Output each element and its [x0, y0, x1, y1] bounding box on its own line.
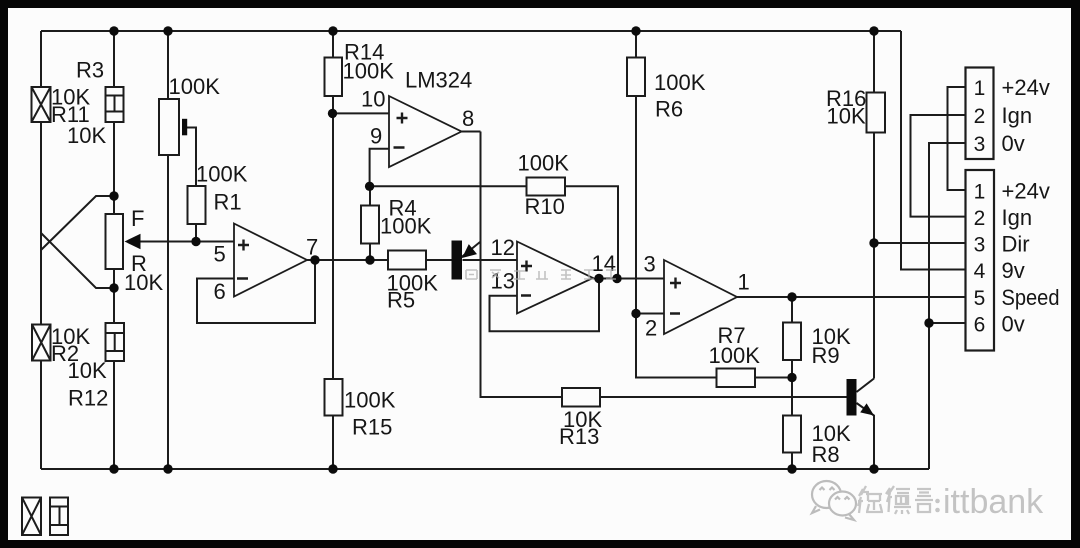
svg-text:+24v: +24v — [1002, 179, 1050, 204]
wire column R3/pot/R12 — [113, 31, 115, 469]
wire top rail — [41, 30, 901, 32]
svg-text:0v: 0v — [1002, 312, 1025, 337]
transistor Q2 — [847, 379, 875, 416]
svg-text:13: 13 — [491, 269, 515, 294]
resistor R6 — [627, 58, 645, 97]
wire pin10 — [333, 112, 390, 114]
wire column R14/R15 — [332, 31, 334, 469]
svg-text:0v: 0v — [1002, 131, 1025, 156]
wire U1 feedback — [197, 260, 315, 323]
svg-text:100K: 100K — [709, 343, 761, 368]
svg-text:10K: 10K — [124, 270, 163, 295]
transistor Q1 — [452, 241, 478, 280]
watermark wechat id text — [858, 483, 1044, 521]
watermark center press name — [466, 270, 616, 279]
svg-text:2: 2 — [645, 316, 657, 341]
svg-text:2: 2 — [974, 207, 986, 230]
wire U3 output — [593, 278, 664, 280]
resistor R16 — [867, 93, 886, 133]
svg-text:R6: R6 — [655, 97, 683, 122]
svg-text:3: 3 — [644, 252, 656, 277]
op-amp U4 — [664, 260, 737, 334]
svg-text:ittbank: ittbank — [943, 483, 1044, 521]
connector J1 — [966, 68, 994, 160]
svg-text:1: 1 — [974, 181, 986, 204]
potentiometer F/R 10K — [106, 214, 141, 269]
wire 9v line — [901, 31, 966, 270]
wire Q1 to U3 — [463, 259, 518, 261]
wire U3 feedback — [490, 279, 600, 332]
wire long drop to R13 — [481, 132, 847, 398]
svg-text:10K: 10K — [67, 123, 106, 148]
svg-text:Ign: Ign — [1002, 103, 1033, 128]
svg-text:12: 12 — [491, 235, 515, 260]
svg-text:1: 1 — [738, 270, 750, 295]
wire Dir line — [874, 242, 966, 244]
svg-text:6: 6 — [974, 314, 986, 337]
svg-text:10K: 10K — [827, 104, 866, 129]
svg-text:Speed: Speed — [1002, 285, 1060, 310]
svg-text:100K: 100K — [344, 388, 396, 413]
wire conn1 pin2 bracket — [911, 115, 966, 217]
wire Q2 emitter — [857, 403, 875, 469]
connector J1 net names — [1002, 75, 1050, 156]
potentiometer 100K — [159, 99, 187, 155]
svg-text:9: 9 — [370, 124, 382, 149]
svg-text:100K: 100K — [518, 151, 570, 176]
resistor R15 — [325, 379, 343, 416]
connector J2 — [966, 170, 995, 351]
resistor R10 — [527, 178, 566, 196]
wire U4 output to Speed — [737, 296, 966, 298]
svg-text:F: F — [131, 206, 144, 231]
wire U2 output pin8 — [462, 131, 481, 133]
wire R4 branch — [369, 186, 371, 260]
svg-text:100K: 100K — [343, 59, 395, 84]
svg-text:3: 3 — [974, 234, 986, 257]
wire column pot 100K — [167, 31, 169, 469]
svg-text:5: 5 — [974, 287, 986, 310]
wire op-amp U1 output — [307, 259, 452, 261]
svg-text:14: 14 — [592, 251, 616, 276]
svg-text:100K: 100K — [196, 162, 248, 187]
resistor R13 — [562, 388, 600, 407]
svg-text:Dir: Dir — [1002, 232, 1030, 257]
wire conn2 pin6 stub — [929, 322, 966, 324]
op-amp U2 LM324 — [389, 96, 462, 167]
wire Q1 emitter diagonal — [461, 242, 480, 258]
svg-text:100K: 100K — [654, 70, 706, 95]
wire R6 rail and R7 run — [636, 31, 792, 378]
svg-text:6: 6 — [214, 279, 226, 304]
legend crossed box — [22, 498, 41, 536]
wire Q2 collector diagonal — [857, 379, 875, 393]
svg-text:8: 8 — [462, 106, 474, 131]
wire R10 run — [370, 186, 618, 278]
wire pot100K wiper to R1 — [187, 128, 196, 242]
wire R9 R8 column — [791, 297, 793, 469]
svg-text:R13: R13 — [559, 424, 599, 449]
resistor R11 — [32, 87, 51, 122]
wire bottom rail — [41, 468, 929, 470]
svg-text:7: 7 — [306, 235, 318, 260]
watermark wechat icon — [812, 481, 856, 520]
resistor R1 — [188, 186, 206, 224]
resistor R4 — [361, 206, 379, 244]
resistor R3 — [106, 87, 124, 122]
svg-text:100K: 100K — [169, 74, 221, 99]
svg-text:R5: R5 — [387, 288, 415, 313]
connector J2 pin numbers — [974, 181, 986, 337]
svg-text:9v: 9v — [1002, 258, 1025, 283]
wire pot wiper to pin5 — [140, 241, 234, 243]
op-amp U3 — [517, 242, 593, 314]
svg-text:R9: R9 — [812, 343, 840, 368]
resistor R14 — [325, 58, 343, 97]
connector J1 pin numbers — [974, 77, 986, 156]
wire pin9 — [370, 149, 389, 187]
svg-text:R8: R8 — [812, 442, 840, 467]
wire pin2 — [636, 313, 664, 315]
svg-text:100K: 100K — [380, 214, 432, 239]
svg-text:LM324: LM324 — [405, 68, 472, 93]
op-amp U1 — [234, 224, 307, 297]
legend lined box — [50, 498, 68, 536]
resistor R2 — [32, 325, 51, 361]
wire left rail — [40, 31, 42, 469]
resistor R9 — [783, 323, 801, 361]
wire cross link lower — [41, 233, 114, 288]
svg-text:2: 2 — [974, 105, 986, 128]
svg-text:10: 10 — [361, 87, 385, 112]
svg-text:R10: R10 — [525, 194, 565, 219]
wire rail R16 — [873, 31, 875, 379]
wire conn1 pin1 bracket — [948, 87, 966, 190]
wire conn1 pin3 0v bracket — [929, 143, 966, 469]
resistor R12 — [106, 323, 125, 361]
svg-text:+24v: +24v — [1002, 75, 1050, 100]
svg-text:4: 4 — [974, 260, 986, 283]
svg-text:1: 1 — [974, 77, 986, 100]
resistor R8 — [783, 416, 801, 453]
svg-text:5: 5 — [214, 242, 226, 267]
resistor R5 — [388, 251, 426, 270]
svg-text:Ign: Ign — [1002, 205, 1033, 230]
svg-text:10K: 10K — [68, 358, 107, 383]
connector J2 net names — [1002, 179, 1060, 337]
svg-text:3: 3 — [974, 133, 986, 156]
svg-text:R15: R15 — [352, 415, 392, 440]
svg-text:R12: R12 — [68, 386, 108, 411]
svg-text:R3: R3 — [76, 58, 104, 83]
resistor R7 — [717, 369, 756, 388]
svg-text:R1: R1 — [214, 190, 242, 215]
wire cross link upper — [41, 196, 114, 250]
